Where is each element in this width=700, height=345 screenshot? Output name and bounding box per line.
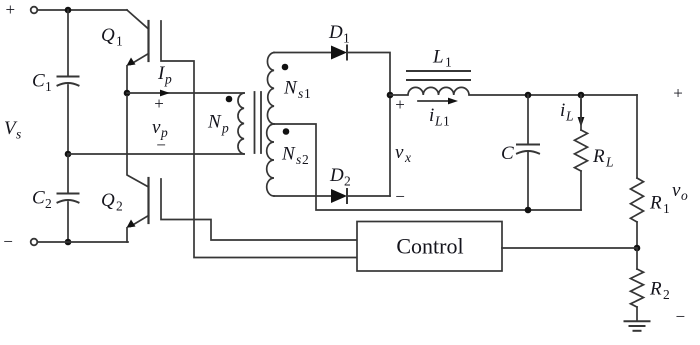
control block U1 bbox=[357, 222, 502, 272]
svg-text:N: N bbox=[207, 112, 222, 133]
svg-text:−: − bbox=[395, 187, 405, 206]
svg-text:1: 1 bbox=[343, 31, 350, 46]
wire Ns2 bottom to D2 bbox=[274, 195, 331, 197]
svg-text:2: 2 bbox=[344, 174, 351, 189]
wire RL branch lower bbox=[580, 171, 582, 210]
node junction C bottom bbox=[525, 207, 532, 214]
svg-text:s: s bbox=[16, 127, 21, 142]
node bottom-left terminal bbox=[31, 239, 38, 246]
svg-text:1: 1 bbox=[445, 55, 452, 70]
wire D1 to vx rail bbox=[347, 53, 390, 197]
resistor RL bbox=[575, 130, 588, 171]
transformer secondary N_s1 bbox=[267, 53, 274, 125]
svg-text:−: − bbox=[3, 232, 13, 251]
transformer core bbox=[254, 92, 256, 153]
svg-text:i: i bbox=[429, 105, 434, 126]
svg-text:L: L bbox=[565, 109, 574, 124]
transformer primary N_p bbox=[238, 93, 244, 154]
node junction mid-left bbox=[65, 151, 72, 158]
wire D2 to vx rail bbox=[347, 195, 390, 197]
svg-text:p: p bbox=[221, 121, 229, 136]
node N_s1 dot bbox=[282, 64, 289, 71]
wire mid rail to primary bottom bbox=[68, 153, 244, 155]
svg-text:+: + bbox=[6, 0, 16, 19]
svg-text:Control: Control bbox=[396, 234, 463, 259]
svg-text:+: + bbox=[154, 94, 164, 113]
node junction bottom-left bbox=[65, 239, 72, 246]
svg-text:x: x bbox=[404, 150, 411, 165]
resistor R1 bbox=[631, 178, 644, 222]
svg-text:Q: Q bbox=[101, 190, 115, 211]
svg-text:o: o bbox=[681, 188, 688, 203]
wire right rail top bbox=[636, 95, 638, 178]
wire center tap return bbox=[274, 124, 581, 210]
svg-text:s: s bbox=[298, 86, 303, 101]
svg-text:v: v bbox=[672, 180, 681, 201]
transformer secondary N_s2 bbox=[267, 124, 274, 196]
transistor Q2 bbox=[101, 96, 149, 242]
node i_L1 arrow bbox=[418, 100, 450, 102]
diode D1 bbox=[331, 46, 347, 60]
svg-text:v: v bbox=[395, 142, 404, 163]
svg-text:+: + bbox=[395, 95, 405, 114]
wire left rail lower bbox=[67, 154, 69, 193]
svg-text:1: 1 bbox=[116, 34, 123, 49]
node junction R1/R2 bbox=[634, 245, 641, 252]
wire I_p primary top wire bbox=[127, 92, 244, 94]
svg-text:D: D bbox=[329, 165, 344, 186]
svg-text:−: − bbox=[156, 136, 166, 155]
node I_p arrow bbox=[160, 90, 170, 97]
svg-text:2: 2 bbox=[663, 287, 670, 302]
inductor L1 bbox=[390, 87, 637, 95]
svg-text:L: L bbox=[432, 47, 444, 68]
resistor R2 bbox=[631, 269, 644, 307]
svg-text:Q: Q bbox=[101, 25, 115, 46]
node vx junction bbox=[387, 92, 394, 99]
wire Q1 gate to control bbox=[161, 21, 357, 258]
svg-text:N: N bbox=[283, 78, 298, 99]
node i_L arrow bbox=[580, 100, 582, 119]
svg-text:+: + bbox=[673, 84, 683, 103]
wire top rail bbox=[37, 9, 127, 11]
svg-text:C: C bbox=[32, 71, 45, 92]
wire junction to R2 bbox=[636, 248, 638, 269]
svg-text:i: i bbox=[560, 100, 565, 121]
wire left rail bottom bbox=[67, 202, 69, 242]
wire Q2 gate to control bbox=[161, 179, 357, 240]
wire RL branch upper bbox=[580, 95, 582, 130]
capacitor C1 bbox=[58, 76, 79, 78]
svg-text:C: C bbox=[501, 143, 514, 164]
svg-text:2: 2 bbox=[45, 196, 52, 211]
node junction RL top bbox=[578, 92, 585, 99]
wire C branch lower bbox=[527, 153, 529, 211]
node N_p dot bbox=[226, 96, 233, 103]
svg-text:1: 1 bbox=[443, 114, 450, 129]
svg-text:2: 2 bbox=[302, 152, 309, 167]
node top-left terminal bbox=[31, 7, 38, 14]
wire C branch upper bbox=[527, 95, 529, 144]
svg-text:1: 1 bbox=[304, 86, 311, 101]
wire R2 to ground bbox=[636, 307, 638, 321]
node junction top-left bbox=[65, 7, 72, 14]
svg-text:R: R bbox=[592, 146, 605, 167]
svg-text:N: N bbox=[281, 144, 296, 165]
node junction primary-top bbox=[124, 90, 131, 97]
svg-text:1: 1 bbox=[45, 79, 52, 94]
svg-text:C: C bbox=[32, 188, 45, 209]
wire left rail upper bbox=[67, 10, 69, 76]
svg-text:s: s bbox=[296, 152, 301, 167]
svg-text:R: R bbox=[649, 193, 662, 214]
wire left rail middle bbox=[67, 85, 69, 154]
svg-text:R: R bbox=[649, 279, 662, 300]
svg-text:p: p bbox=[164, 72, 172, 87]
svg-text:−: − bbox=[676, 307, 686, 326]
svg-text:2: 2 bbox=[116, 199, 123, 214]
node junction C top bbox=[525, 92, 532, 99]
transistor Q1 bbox=[101, 10, 149, 93]
svg-text:L: L bbox=[605, 155, 614, 170]
capacitor C2 bbox=[58, 193, 79, 195]
node N_s2 dot bbox=[283, 128, 290, 135]
svg-text:L: L bbox=[434, 114, 443, 129]
diode D2 bbox=[331, 189, 347, 203]
wire Ns1 top to D1 bbox=[274, 52, 331, 54]
ground bbox=[625, 321, 650, 331]
svg-text:1: 1 bbox=[663, 201, 670, 216]
capacitor C bbox=[517, 144, 539, 146]
svg-text:D: D bbox=[328, 22, 343, 43]
wire bottom rail bbox=[37, 241, 128, 243]
wire control output to R1/R2 junction bbox=[502, 247, 637, 249]
inductor L1 core bars bbox=[407, 70, 470, 72]
wire R1 to junction bbox=[636, 222, 638, 248]
